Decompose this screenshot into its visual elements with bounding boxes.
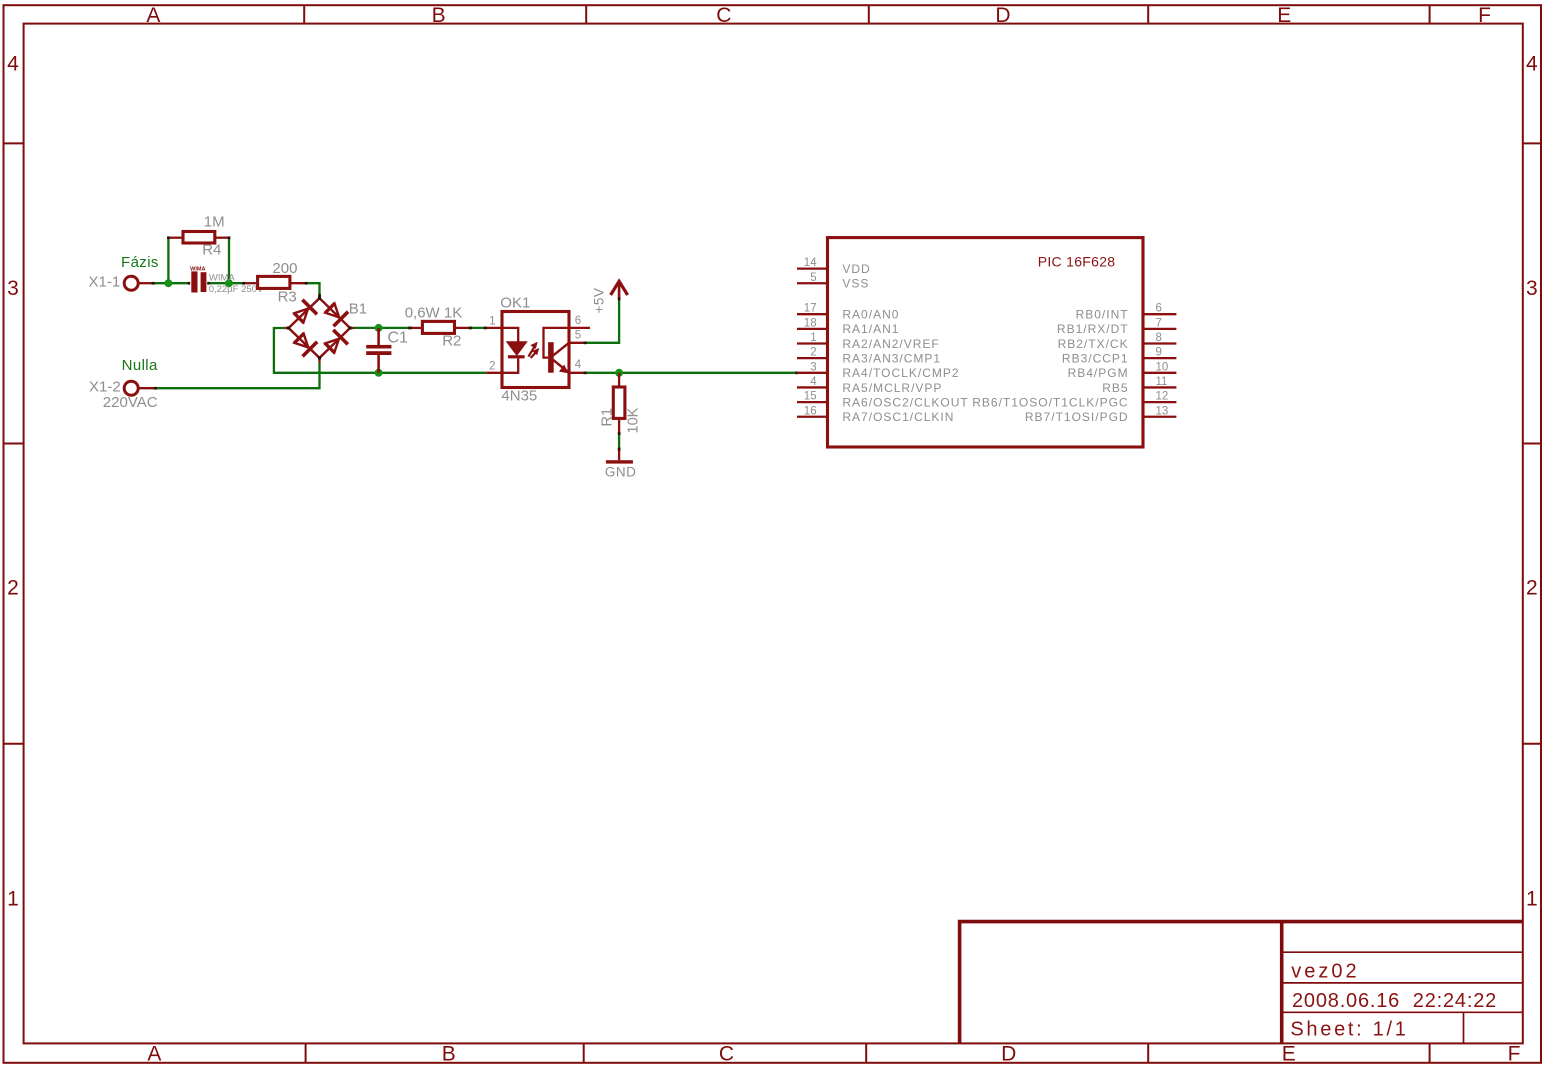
- svg-text:B: B: [432, 4, 446, 27]
- svg-text:2: 2: [1526, 577, 1538, 600]
- svg-text:Fázis: Fázis: [121, 254, 159, 271]
- wire stub bridge right pin: [350, 327, 354, 329]
- svg-text:4: 4: [1526, 52, 1538, 75]
- U1 pin 12 RB6/T1OSO/T1CLK/PGC: [972, 391, 1176, 410]
- svg-text:+5V: +5V: [592, 288, 607, 314]
- wire R2 to OK1 pin 1: [470, 327, 486, 329]
- svg-text:A: A: [147, 1042, 161, 1065]
- junction node top net at C1: [375, 324, 383, 332]
- resistor R1 name label: [600, 408, 616, 427]
- svg-text:6: 6: [575, 315, 581, 327]
- capacitor brand label WIMA: [209, 273, 236, 284]
- connector pad X1-1: [124, 276, 153, 290]
- U1 pin 4 RA5/MCLR/VPP: [797, 376, 942, 395]
- svg-text:B1: B1: [349, 300, 367, 317]
- resistor R2: [408, 321, 470, 333]
- svg-text:RA5/MCLR/VPP: RA5/MCLR/VPP: [842, 381, 942, 395]
- value label 0,22uF 250V: [209, 284, 264, 295]
- svg-text:2: 2: [489, 360, 495, 372]
- svg-text:3: 3: [1526, 277, 1538, 300]
- svg-text:C: C: [716, 4, 731, 27]
- wire stub bridge top pin: [318, 295, 320, 299]
- svg-text:4: 4: [575, 359, 582, 371]
- U1 pin 2 RA3/AN3/CMP1: [797, 347, 941, 366]
- U1 pin 3 RA4/TOCLK/CMP2: [797, 361, 960, 380]
- value label 10K: [626, 407, 642, 433]
- svg-text:A: A: [146, 4, 160, 27]
- svg-text:RA7/OSC1/CLKIN: RA7/OSC1/CLKIN: [842, 410, 954, 424]
- svg-text:F: F: [1508, 1042, 1521, 1065]
- svg-text:VDD: VDD: [842, 262, 870, 276]
- pin 4 lead: [569, 372, 586, 374]
- pin 5 lead: [569, 342, 586, 344]
- svg-text:14: 14: [804, 257, 817, 269]
- svg-text:0,6W 1K: 0,6W 1K: [405, 305, 463, 322]
- connector X1-1 label: [89, 274, 121, 291]
- svg-text:C1: C1: [388, 330, 409, 347]
- wire bridge right to R2: [354, 327, 408, 329]
- microcontroller U1 PIC 16F628: [828, 238, 1144, 447]
- power symbol +5V: [611, 281, 628, 299]
- value label 1M: [204, 214, 225, 231]
- svg-text:11: 11: [1156, 376, 1168, 388]
- ground symbol GND: [606, 449, 633, 464]
- svg-text:8: 8: [1156, 332, 1162, 344]
- phototransistor base lead / pin 6: [544, 328, 591, 358]
- svg-text:5: 5: [810, 272, 816, 284]
- OK1 pin number 6: [575, 315, 581, 327]
- svg-text:12: 12: [1156, 391, 1169, 403]
- pin 2 lead: [486, 358, 518, 373]
- svg-text:vez02: vez02: [1291, 961, 1359, 983]
- TITLE BLOCK: [960, 922, 1523, 1044]
- wire stub bridge bottom pin: [318, 358, 320, 363]
- OK1 pin number 5: [575, 330, 581, 342]
- bridge vertex dots: [287, 297, 352, 360]
- junction node at cap/R4: [225, 279, 233, 287]
- svg-text:1: 1: [489, 316, 495, 328]
- svg-text:10: 10: [1156, 361, 1169, 373]
- capacitor C1 name label: [388, 330, 409, 347]
- junction node at X1-1/R4: [164, 279, 172, 287]
- U1 pin 14 VDD: [797, 257, 871, 276]
- svg-text:RB7/T1OSI/PGD: RB7/T1OSI/PGD: [1025, 410, 1129, 424]
- svg-text:0,22µF 250V: 0,22µF 250V: [209, 284, 264, 295]
- value label 200: [272, 260, 297, 277]
- wire capacitor to R3: [208, 282, 244, 284]
- svg-text:C: C: [719, 1042, 734, 1065]
- SCHEMATIC: [89, 214, 1177, 480]
- svg-text:1: 1: [810, 332, 816, 344]
- pin 1 lead: [486, 328, 518, 342]
- U1 pin 5 VSS: [797, 272, 869, 291]
- svg-text:X1-1: X1-1: [89, 274, 121, 291]
- svg-text:4: 4: [810, 376, 817, 388]
- resistor R4: [168, 232, 229, 244]
- svg-text:E: E: [1282, 1042, 1296, 1065]
- svg-text:VSS: VSS: [842, 277, 869, 291]
- LED anode triangle: [508, 342, 526, 354]
- wire bridge bottom to X1-2: [155, 363, 320, 389]
- wire R3 to bridge top: [306, 283, 320, 294]
- svg-text:RA0/AN0: RA0/AN0: [842, 308, 899, 322]
- U1 pin 6 RB0/INT: [1076, 303, 1177, 322]
- svg-text:OK1: OK1: [500, 295, 530, 312]
- svg-text:17: 17: [804, 303, 817, 315]
- wire stub bridge left pin: [284, 327, 288, 329]
- svg-text:200: 200: [272, 260, 297, 277]
- wire R1 to GND: [618, 433, 620, 449]
- collector diagonal: [553, 343, 569, 356]
- svg-text:4: 4: [7, 52, 19, 75]
- svg-text:RA1/AN1: RA1/AN1: [842, 322, 899, 336]
- U1 pin 9 RB3/CCP1: [1062, 347, 1176, 366]
- net label Nulla: [122, 357, 158, 374]
- U1 pin 1 RA2/AN2/VREF: [797, 332, 940, 351]
- svg-text:RB0/INT: RB0/INT: [1076, 308, 1129, 322]
- U1 pin 17 RA0/AN0: [797, 303, 899, 322]
- svg-text:WIMA: WIMA: [190, 266, 205, 272]
- svg-text:R2: R2: [442, 332, 461, 349]
- U1 pin 18 RA1/AN1: [797, 317, 899, 336]
- light arrow 2: [531, 348, 539, 358]
- optocoupler value label 4N35: [501, 387, 537, 404]
- svg-text:3: 3: [810, 361, 816, 373]
- resistor R1: [613, 373, 625, 433]
- junction node bottom net at C1: [375, 369, 383, 377]
- svg-text:7: 7: [1156, 317, 1162, 329]
- svg-text:RA6/OSC2/CLKOUT: RA6/OSC2/CLKOUT: [842, 395, 968, 409]
- svg-text:F: F: [1478, 4, 1491, 27]
- svg-text:R1: R1: [600, 408, 616, 427]
- bridge B1 name label: [349, 300, 367, 317]
- resistor R3 name label: [278, 288, 297, 305]
- optocoupler OK1 name label: [500, 295, 530, 312]
- svg-text:WIMA: WIMA: [209, 273, 236, 284]
- wire R4 right leg: [228, 238, 230, 284]
- svg-text:1: 1: [1526, 888, 1538, 911]
- svg-text:R3: R3: [278, 288, 297, 305]
- value label 220VAC: [103, 394, 158, 411]
- wire OK1 pin 4 to R1 and PIC RA4: [586, 372, 797, 374]
- svg-text:GND: GND: [605, 465, 637, 480]
- svg-text:5: 5: [575, 330, 581, 342]
- svg-text:D: D: [1001, 1042, 1016, 1065]
- U1 pin 11 RB5: [1102, 376, 1176, 395]
- svg-text:9: 9: [1156, 347, 1162, 359]
- connector pad X1-2: [124, 381, 155, 395]
- svg-text:RB6/T1OSO/T1CLK/PGC: RB6/T1OSO/T1CLK/PGC: [972, 395, 1128, 409]
- svg-text:RB1/RX/DT: RB1/RX/DT: [1057, 322, 1129, 336]
- svg-text:PIC 16F628: PIC 16F628: [1038, 254, 1116, 270]
- emitter diagonal with arrow: [553, 360, 568, 372]
- svg-text:18: 18: [804, 317, 817, 329]
- svg-text:3: 3: [7, 277, 19, 300]
- OK1 pin number 2: [489, 360, 495, 372]
- svg-text:16: 16: [804, 405, 817, 417]
- connector X1-2 label: [89, 379, 121, 396]
- U1 pin 10 RB4/PGM: [1068, 361, 1177, 380]
- svg-text:E: E: [1277, 4, 1291, 27]
- svg-text:6: 6: [1156, 303, 1162, 315]
- U1 pin 15 RA6/OSC2/CLKOUT: [797, 391, 969, 410]
- U1 pin 8 RB2/TX/CK: [1058, 332, 1177, 351]
- junction node at R1: [615, 369, 623, 377]
- svg-text:15: 15: [804, 391, 817, 403]
- svg-text:Nulla: Nulla: [122, 357, 158, 374]
- wire end tick marks: [152, 236, 799, 450]
- U1 pin 7 RB1/RX/DT: [1057, 317, 1176, 336]
- wire bridge left to bottom net: [274, 328, 486, 373]
- capacitor C2 WIMA 0,22uF 250V: [190, 266, 206, 292]
- svg-text:RB5: RB5: [1102, 381, 1128, 395]
- svg-text:RB4/PGM: RB4/PGM: [1068, 366, 1129, 380]
- OK1 pin number 1: [489, 316, 495, 328]
- svg-text:10K: 10K: [626, 407, 642, 433]
- svg-text:2008.06.16 22:24:22: 2008.06.16 22:24:22: [1292, 990, 1497, 1012]
- svg-text:1: 1: [7, 888, 19, 911]
- net label Fazis: [121, 254, 159, 271]
- resistor R2 name label: [442, 332, 461, 349]
- svg-text:R4: R4: [202, 242, 221, 259]
- U1 pin 16 RA7/OSC1/CLKIN: [797, 405, 954, 424]
- resistor R3: [244, 276, 306, 288]
- wire X1-1 to capacitor: [153, 282, 190, 284]
- svg-text:RA2/AN2/VREF: RA2/AN2/VREF: [842, 337, 939, 351]
- GND net label: [605, 465, 637, 480]
- resistor R4 name label: [202, 242, 221, 259]
- svg-text:D: D: [995, 4, 1010, 27]
- svg-text:RA3/AN3/CMP1: RA3/AN3/CMP1: [842, 351, 941, 365]
- bridge rectifier B1: [289, 298, 350, 358]
- svg-text:1M: 1M: [204, 214, 225, 231]
- capacitor C1: [366, 328, 391, 373]
- +5V net label: [592, 288, 607, 314]
- optocoupler OK1 4N35: [486, 312, 590, 388]
- OK1 pin number 4: [575, 359, 582, 371]
- phototransistor base bar: [548, 342, 554, 373]
- svg-text:Sheet: 1/1: Sheet: 1/1: [1290, 1019, 1408, 1041]
- svg-text:4N35: 4N35: [501, 387, 537, 404]
- svg-text:RB3/CCP1: RB3/CCP1: [1062, 351, 1129, 365]
- U1 pin 13 RB7/T1OSI/PGD: [1025, 405, 1177, 424]
- light arrow 1: [528, 342, 537, 357]
- svg-text:B: B: [442, 1042, 456, 1065]
- wire R4 left leg: [167, 238, 169, 284]
- svg-text:2: 2: [810, 347, 816, 359]
- value label 0,6W 1K: [405, 305, 463, 322]
- wire OK1 pin 5 to +5V: [586, 300, 620, 343]
- LED cathode bar: [508, 355, 525, 358]
- svg-text:2: 2: [7, 577, 19, 600]
- svg-text:RB2/TX/CK: RB2/TX/CK: [1058, 337, 1129, 351]
- svg-text:RA4/TOCLK/CMP2: RA4/TOCLK/CMP2: [842, 366, 959, 380]
- svg-text:13: 13: [1156, 405, 1169, 417]
